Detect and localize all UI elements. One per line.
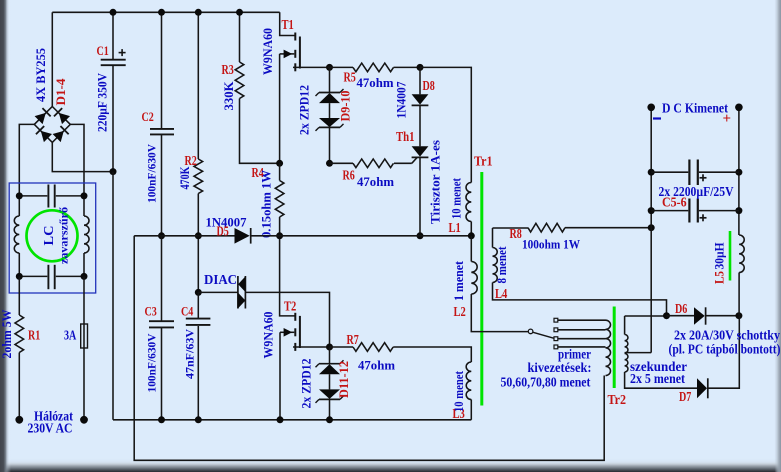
plus sign C6 — [700, 217, 707, 219]
Tr2 secondary bottom wire — [625, 372, 697, 388]
wire D5 row left — [134, 235, 234, 237]
junction top rail C1 — [110, 9, 117, 16]
junction Th1 bottom — [417, 232, 424, 239]
svg-text:Tr2: Tr2 — [608, 392, 627, 407]
T2 source wire — [293, 346, 330, 348]
Tr2 primary winding — [606, 320, 611, 375]
wire bridge bottom to C1 node — [52, 142, 113, 171]
zener D11 (apex up) — [319, 364, 340, 374]
svg-text:L5: L5 — [713, 271, 727, 284]
resistor R4 — [275, 181, 284, 218]
wire C3 to gnd rail — [161, 328, 163, 420]
zener D9 (apex up) — [319, 93, 340, 103]
wire LC to R1 — [18, 276, 20, 315]
svg-text:R5: R5 — [344, 70, 357, 85]
svg-text:47ohm: 47ohm — [358, 358, 395, 373]
switch pivot — [528, 329, 533, 334]
capacitor C6 — [688, 199, 690, 223]
wire C1 node down to gnd rail — [112, 172, 114, 420]
svg-text:C3: C3 — [145, 304, 158, 319]
wire zener to gate row — [329, 127, 331, 163]
svg-text:R6: R6 — [343, 168, 356, 183]
zener D9 bar — [319, 92, 340, 94]
svg-text:T1: T1 — [282, 17, 294, 32]
capacitor C4 — [186, 318, 211, 320]
svg-text:2x 5 menet: 2x 5 menet — [630, 371, 685, 386]
svg-text:8 menet: 8 menet — [495, 246, 509, 284]
svg-text:C2: C2 — [142, 109, 154, 124]
svg-text:R1: R1 — [28, 328, 40, 343]
svg-text:L1: L1 — [449, 220, 461, 235]
wire minus rail — [650, 107, 652, 352]
svg-text:R8: R8 — [510, 226, 523, 241]
junction minus cap bottom — [648, 207, 655, 214]
bridge diode D4 (bottom-right edge) — [53, 131, 64, 142]
wire C5 right — [699, 171, 739, 173]
wire mid node to C3 — [161, 236, 163, 321]
svg-text:R2: R2 — [185, 153, 198, 168]
Th1 gate — [394, 162, 412, 164]
junction T2 source node — [326, 344, 333, 351]
junction L1-L2 — [468, 232, 475, 239]
LC left inductor — [18, 196, 20, 216]
switch contact 2 — [554, 328, 558, 332]
fuse 3A — [81, 324, 88, 348]
Tr2 secondary top wire — [625, 315, 667, 317]
junction LC top-right — [81, 192, 88, 199]
junction R4 line at D5 row — [276, 232, 283, 239]
resistor R4 wire top — [279, 163, 281, 180]
svg-text:D5: D5 — [217, 224, 230, 239]
svg-text:D8: D8 — [423, 78, 436, 93]
LC right inductor — [83, 196, 85, 216]
svg-text:L2: L2 — [454, 304, 467, 319]
wire Th1 cathode — [419, 157, 421, 235]
svg-text:100nF/630V: 100nF/630V — [144, 333, 158, 392]
resistor R3 — [235, 62, 244, 99]
T1 source wire — [293, 66, 328, 68]
junction R8 minus rail — [648, 224, 655, 231]
diode D5 — [235, 228, 250, 244]
junction D6 anode — [663, 312, 670, 319]
winding L4 — [492, 228, 494, 248]
svg-text:W9NA60: W9NA60 — [261, 312, 275, 359]
svg-text:47ohm: 47ohm — [357, 75, 394, 90]
DIAC bars — [237, 276, 239, 309]
junction top rail R3 — [236, 9, 243, 16]
wire C4 node to DIAC — [198, 291, 238, 293]
junction gnd C3 — [158, 416, 165, 423]
switch contact 3 — [554, 337, 558, 341]
svg-text:Tr1: Tr1 — [474, 154, 493, 169]
svg-text:3A: 3A — [64, 329, 77, 344]
wire R2 to D5 node — [197, 194, 199, 293]
wire LC top cap — [19, 195, 47, 197]
wire C6 left — [651, 210, 688, 212]
junction gnd zener — [326, 416, 333, 423]
Tr2 center tap wire — [625, 352, 652, 354]
wire L3 to gnd rail — [470, 400, 472, 420]
wire D5-node to Tr2 primary bottom — [134, 236, 604, 460]
svg-text:2ohm 5W: 2ohm 5W — [0, 309, 14, 358]
svg-text:D9-10: D9-10 — [339, 91, 353, 122]
junction plus cap bottom — [735, 207, 742, 214]
svg-text:zavarszűrő: zavarszűrő — [57, 207, 71, 264]
plus sign C1 — [119, 52, 126, 54]
zener D12 bar — [319, 398, 340, 400]
T1 drain bar — [294, 33, 296, 41]
DIAC upper triangle — [238, 276, 245, 292]
wire DIAC to T2 source node — [245, 292, 329, 347]
wire C4 to gnd rail — [197, 326, 199, 420]
resistor R2 — [194, 159, 203, 194]
plus sign C5 — [700, 177, 707, 179]
svg-text:kivezetések:: kivezetések: — [528, 360, 592, 375]
wire bridge right vertex to LC filter — [70, 124, 84, 195]
svg-text:2x 20A/30V schottky: 2x 20A/30V schottky — [674, 328, 780, 343]
svg-text:47nF/63V: 47nF/63V — [182, 329, 196, 379]
wire D8 anode — [419, 67, 421, 94]
wire D8 to Th1 — [419, 105, 421, 146]
junction T1 source node — [326, 64, 333, 71]
switch contact 4 — [554, 345, 558, 349]
wire rail to R3 — [239, 12, 241, 62]
svg-text:D7: D7 — [679, 389, 692, 404]
resistor R6 — [330, 162, 354, 164]
svg-text:10 menet: 10 menet — [450, 177, 464, 219]
wire L1 to dot — [470, 222, 472, 236]
svg-text:+: + — [723, 111, 732, 127]
capacitor C1 — [101, 59, 126, 61]
junction gnd C4 — [195, 416, 202, 423]
wire L2 to switch — [471, 294, 528, 332]
resistor R7 — [330, 346, 354, 348]
svg-text:C1: C1 — [97, 43, 109, 58]
svg-text:2x ZPD12: 2x ZPD12 — [297, 85, 311, 135]
svg-text:Tirisztor 1A-es: Tirisztor 1A-es — [429, 140, 443, 224]
wire C2 to mid node — [161, 135, 163, 236]
resistor R1 — [15, 315, 24, 353]
svg-text:2x ZPD12: 2x ZPD12 — [300, 359, 314, 409]
wire L5 to D6 node — [738, 273, 740, 316]
diode D8 — [412, 94, 429, 104]
junction zener bottom — [326, 160, 333, 167]
svg-text:100nF/630V: 100nF/630V — [144, 144, 158, 203]
junction gnd T2 gate — [277, 416, 284, 423]
junction D8 top — [417, 64, 424, 71]
winding L1 — [466, 183, 471, 222]
svg-text:100ohm 1W: 100ohm 1W — [522, 237, 580, 252]
capacitor C5 — [688, 160, 690, 186]
wire rail to R2 — [197, 12, 199, 159]
resistor R8 — [493, 227, 529, 229]
switch arm — [533, 332, 554, 338]
wire D7 cathode — [708, 316, 740, 389]
Tr2 secondary lower — [625, 354, 628, 373]
junction LC top-left — [16, 192, 23, 199]
bridge diode D1 (left-top edge) — [35, 113, 46, 124]
wire zener D12 to gnd rail — [329, 399, 331, 419]
junction T1 gate node — [276, 160, 283, 167]
svg-text:4X BY255: 4X BY255 — [34, 48, 48, 102]
junction R2/D5 — [195, 232, 202, 239]
wire R1 to mains — [18, 353, 20, 420]
wire R7 to L3 — [393, 347, 471, 362]
wire D6 anode — [667, 315, 695, 317]
terminal DC minus — [647, 104, 655, 112]
wire C6 right — [699, 210, 739, 212]
svg-text:50,60,70,80 menet: 50,60,70,80 menet — [501, 375, 591, 390]
LC green circle — [27, 210, 78, 261]
LC top capacitor — [47, 185, 49, 208]
DIAC lower triangle — [238, 293, 245, 309]
Tr1 core bar — [480, 172, 483, 406]
T1 source bar — [294, 63, 296, 71]
T1 drain wire — [280, 12, 295, 35]
svg-text:10 menet: 10 menet — [452, 370, 466, 412]
svg-text:30µH: 30µH — [713, 242, 727, 269]
capacitor C3 — [149, 320, 174, 322]
L5 core bar — [729, 231, 732, 281]
svg-text:(pl. PC tápból bontott): (pl. PC tápból bontott) — [669, 342, 781, 357]
svg-text:1 menet: 1 menet — [452, 260, 466, 301]
zener D12 (apex down) — [319, 389, 340, 399]
svg-text:DIAC: DIAC — [204, 273, 237, 288]
wire D5 row right — [251, 235, 472, 237]
svg-text:D1-4: D1-4 — [54, 78, 68, 106]
bridge diode D2 (right-top edge) — [59, 113, 70, 124]
svg-text:R3: R3 — [222, 62, 235, 77]
svg-text:330K: 330K — [222, 81, 236, 110]
junction C2-C3 — [158, 232, 165, 239]
switch contact 1 — [554, 318, 558, 322]
wire to zener D9 — [329, 67, 331, 92]
minus sign — [653, 117, 661, 119]
wire top supply rail — [52, 11, 279, 13]
junction D6 cathode — [735, 312, 742, 319]
wire between zeners D11-12 — [329, 374, 331, 389]
wire gnd rail — [113, 419, 471, 421]
junction minus cap top — [648, 169, 655, 176]
diode D7 — [697, 378, 707, 398]
inductor L5 — [739, 235, 744, 273]
wire L4 bottom to D6 node — [493, 283, 667, 316]
junction C1 bottom — [110, 168, 117, 175]
T2 drain bar — [294, 313, 296, 321]
svg-text:470K: 470K — [178, 166, 192, 189]
T2 gate arrow — [284, 328, 293, 337]
resistor R5 — [328, 66, 353, 68]
T2 gate wire — [280, 331, 294, 333]
LC filter box — [9, 183, 96, 293]
wire plus rail top — [738, 107, 740, 235]
mains terminal right — [80, 416, 88, 424]
junction C4 top — [195, 289, 202, 296]
svg-text:T2: T2 — [284, 299, 297, 314]
wire rail to C1 — [112, 12, 114, 60]
bridge diode D3 (bottom-left edge) — [41, 131, 52, 142]
LC bottom capacitor — [47, 265, 49, 289]
svg-text:W9NA60: W9NA60 — [261, 28, 275, 75]
wire bridge left vertex to LC filter — [19, 124, 34, 195]
zener D10 bar — [319, 126, 340, 128]
mains terminal left — [15, 416, 23, 424]
T1 gate wire — [280, 53, 295, 55]
svg-text:LC: LC — [42, 226, 57, 246]
svg-text:47ohm: 47ohm — [357, 174, 394, 189]
svg-text:D6: D6 — [675, 301, 688, 316]
T1 channel — [299, 37, 301, 69]
capacitor C2 — [150, 128, 174, 130]
svg-text:230V AC: 230V AC — [28, 421, 73, 436]
Tr2 secondary upper — [624, 316, 626, 335]
wire R3 to gate node — [240, 99, 280, 164]
junction plus cap top — [735, 169, 742, 176]
wire C1 to node — [112, 65, 114, 172]
wire to Tr1 top — [420, 67, 471, 182]
zener D11 bar — [319, 363, 340, 365]
wire C5 left — [651, 171, 688, 173]
wire R4 to T2 drain — [280, 217, 295, 316]
svg-text:D C Kimenet: D C Kimenet — [662, 101, 728, 116]
T1 gate arrow — [284, 50, 293, 59]
thyristor Th1 — [412, 146, 429, 156]
Tr2 core bar — [613, 307, 616, 389]
terminal DC plus — [735, 104, 743, 112]
svg-text:L4: L4 — [495, 286, 508, 301]
wire between zeners D9-10 — [329, 103, 331, 118]
wire LC bottom cap — [19, 275, 47, 277]
T2 gate bar — [294, 328, 296, 336]
winding L2 — [470, 236, 472, 262]
svg-text:220µF 350V: 220µF 350V — [96, 73, 110, 132]
winding L3 — [466, 362, 471, 400]
svg-text:1N4007: 1N4007 — [395, 82, 409, 119]
junction LC bottom-left — [16, 273, 23, 280]
bridge rectifier D1-4 diamond — [34, 107, 70, 143]
wire D6 cathode — [706, 315, 739, 317]
zener D10 (apex down) — [319, 118, 340, 127]
svg-text:C4: C4 — [181, 304, 194, 319]
junction LC bottom-right — [81, 273, 88, 280]
svg-text:C5-6: C5-6 — [662, 195, 687, 210]
wire bridge top to rail — [51, 12, 53, 106]
svg-text:R7: R7 — [347, 332, 360, 347]
svg-text:Th1: Th1 — [396, 129, 415, 144]
wire LC to fuse to mains — [83, 276, 85, 419]
junction top rail R2 — [195, 9, 202, 16]
T2 source bar — [294, 343, 296, 351]
wire C4 top — [197, 292, 199, 318]
diode D6 — [694, 307, 705, 324]
svg-text:0.15ohm 1W: 0.15ohm 1W — [259, 170, 273, 238]
svg-text:D11-12: D11-12 — [337, 361, 351, 398]
junction top rail C2 — [158, 9, 165, 16]
T1 gate bar — [294, 50, 296, 58]
wire rail to C2 — [161, 12, 163, 128]
T2 channel — [299, 316, 301, 348]
wire to zener D11 — [329, 347, 331, 364]
